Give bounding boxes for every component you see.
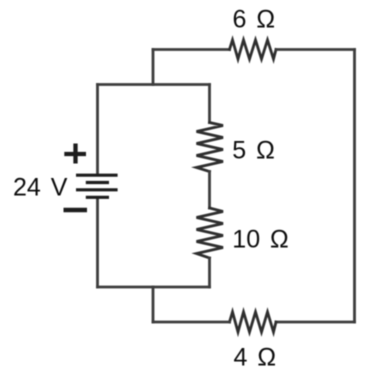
wire battery branch upper <box>96 85 99 176</box>
battery minus sign <box>64 208 88 212</box>
svg-text:24 V: 24 V <box>13 173 68 201</box>
resistor R1 zigzag 6 ohm <box>230 40 277 59</box>
wire inner top <box>98 83 210 86</box>
svg-text:6 Ω: 6 Ω <box>233 6 276 34</box>
wire battery branch lower <box>96 198 99 287</box>
wire bottom left connector vertical <box>152 287 155 322</box>
battery V1 plates <box>76 175 118 197</box>
wire outer top left segment <box>153 48 230 51</box>
resistor R3 zigzag 10 ohm <box>197 208 224 258</box>
wire top left connector vertical <box>152 50 155 85</box>
battery plus sign <box>64 144 86 164</box>
wire outer bottom left segment <box>153 321 230 324</box>
svg-text:5 Ω: 5 Ω <box>232 137 275 165</box>
wire inner bottom <box>98 286 210 289</box>
wire middle branch lower <box>208 258 211 287</box>
svg-text:10 Ω: 10 Ω <box>232 226 288 254</box>
wire middle branch mid <box>208 172 211 209</box>
wire middle branch upper <box>208 85 211 123</box>
wire outer bottom right segment <box>276 321 355 324</box>
svg-text:4 Ω: 4 Ω <box>234 344 277 372</box>
wire outer top right segment <box>276 48 355 51</box>
resistor R2 zigzag 5 ohm <box>197 123 224 172</box>
resistor R4 zigzag 4 ohm <box>230 312 277 332</box>
wire outer right vertical <box>353 50 356 323</box>
